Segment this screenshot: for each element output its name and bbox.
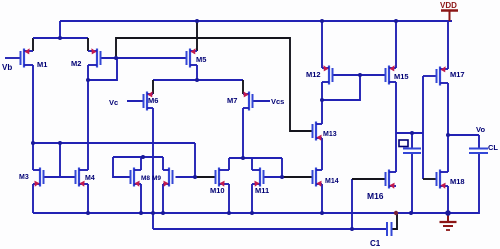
junction dot (412,133) [410,131,414,135]
wire M14 gate lead [282,176,313,178]
wire M12 gate to M15 gate [333,74,386,76]
svg-text:M4: M4 [85,175,95,182]
junction dot (411,213) [409,211,413,215]
wire M10 source [228,184,230,213]
transistor M4 [76,168,89,187]
wire M2 diode link [88,58,117,80]
wire M10 gate lead [195,176,216,178]
wire M15 source up [395,21,397,68]
junction dot (88,213) [86,211,90,215]
wire cap C top lead [411,133,413,148]
wire M1 source up [32,38,34,51]
junction dot (153,213) [151,211,155,215]
wire M11 source [251,184,253,213]
wire M13 source to M14 drain [321,138,323,170]
svg-text:M14: M14 [325,178,339,185]
junction dot (252,213) [250,211,254,215]
transistor M2 [88,48,101,67]
junction dot (60,143) [58,141,62,145]
wire drop to M14 gate [281,158,283,177]
transistor M12 [322,65,333,84]
wire M5 source up [196,21,198,51]
wire M8 gate loop [113,157,131,177]
wire y157 M8 diode [113,156,163,158]
svg-text:M3: M3 [19,174,29,181]
transistor M7 [243,91,253,110]
wire M12 diode loop [322,75,360,100]
svg-text:VDD: VDD [440,1,457,10]
junction dot (141,213) [139,211,143,215]
wire bias net to M13 gate [116,38,313,131]
wire M9 drain up [162,157,164,170]
wire M12 source up [321,21,323,68]
wire riser to top rail [59,21,61,38]
wire M8 source [140,184,142,213]
transistor M10 [216,168,230,187]
wire drop to M9-M10 gates [194,143,196,177]
wire M18 gate lead [423,178,437,180]
svg-text:M2: M2 [71,59,81,68]
svg-text:CL: CL [488,143,498,152]
capacitor CL plates [469,149,488,154]
svg-text:M1: M1 [37,60,47,69]
wire y133 node [396,132,423,134]
svg-text:M6: M6 [148,96,158,105]
junction dot (282,177) [280,175,284,179]
transistor M8 [131,168,142,187]
transistor M5 [187,48,198,67]
wire M2 drain down to M4 drain [87,65,89,170]
wire M16 gate lead [352,178,386,180]
wire M3 source down [32,184,34,213]
junction dot (197,80) [195,78,199,82]
svg-text:Vo: Vo [476,125,485,134]
transistor M17 [437,66,449,85]
transistor M9 [163,168,173,187]
wire ground rail [33,153,479,213]
wire M4 source [87,184,89,213]
wire Vo output [448,134,479,136]
wire y143 mirror bias [33,142,195,144]
svg-text:M5: M5 [196,55,206,64]
wire M5 drain down [196,65,198,80]
svg-text:M15: M15 [394,72,409,81]
junction dot (197,21) [195,19,199,23]
svg-text:M18: M18 [450,177,465,186]
svg-text:M16: M16 [367,191,384,201]
svg-text:M17: M17 [450,70,465,79]
wire M16 gate riser [351,179,353,229]
transistor M16 [386,170,397,189]
wire M17 drain to M18 drain [447,83,449,172]
svg-text:Vb: Vb [2,63,12,72]
transistor M3 [33,168,44,187]
junction dot (360,75) [358,73,362,77]
junction dot (243,158) [241,156,245,160]
wire C1 right lead to ground rail [391,213,397,229]
wire cap C bottom lead [411,153,413,213]
svg-text:M12: M12 [306,70,321,79]
wire M2 source up [87,38,89,51]
junction dot (229,213) [227,211,231,215]
wire M7 gate to Vcs [253,100,271,102]
transistor M14 [313,168,323,187]
junction dot (448,213) [445,210,451,216]
VDD supply symbol [440,1,458,21]
capacitor C plates [403,149,421,154]
svg-text:Vc: Vc [109,98,118,107]
transistor M1 [21,48,34,67]
svg-text:M9: M9 [152,175,161,182]
junction dot (163,213) [161,211,165,215]
svg-text:Vcs: Vcs [271,97,284,106]
wire VDD top rail [60,20,452,22]
wire M17 source up [447,21,449,69]
capacitor C label box [399,140,408,147]
junction dot (322,213) [320,211,324,215]
svg-text:M8: M8 [141,175,150,182]
junction dot (143,157) [141,155,145,159]
wire M10 drain up [228,158,230,170]
wire M11 drain up [251,158,253,170]
junction dot (396,21) [394,19,398,23]
wire M1-M2 source rail y38 [33,37,88,39]
ground symbol [440,214,457,230]
wire M7 drain down [242,108,244,158]
svg-text:M7: M7 [227,96,237,105]
junction dot (322,21) [320,19,324,23]
wire CL top lead [478,135,480,148]
wire M8 drain up [140,157,142,170]
junction dot (195,177) [193,175,197,179]
wire Vc to M6 gate [127,100,144,102]
transistor M15 [386,65,397,84]
wire M7 drain up [242,80,244,94]
wire M6 source down long [152,108,154,229]
junction dot (322,100) [320,98,324,102]
svg-text:C1: C1 [370,239,381,248]
wire riser M3-M4 gates [59,143,61,177]
transistor M6 [144,91,154,110]
transistor M18 [437,170,449,189]
junction dot (88,80) [86,78,90,82]
wire M15 drain down to M16 drain [395,82,397,172]
wire riser M17-M18 gates [422,76,424,179]
wire M11 gate lead [264,176,283,178]
wire M17 gate lead [423,75,437,77]
wire bottom y229 [153,228,387,230]
wire M9 gate lead [176,176,196,178]
wire M18 source [447,186,449,213]
junction dot (396,213) [394,211,398,215]
capacitor C1 plates [387,222,392,236]
transistor M13 [313,122,323,141]
svg-text:M11: M11 [255,186,269,195]
svg-text:M13: M13 [323,131,337,138]
wire M1 drain down to M3 [32,65,34,170]
wire M14 source [321,184,323,213]
wire M3-M4 gate link [44,176,76,178]
junction dot (448,135) [446,133,450,137]
wire M9 source [162,184,164,213]
wire y158 M10-M11 drains [229,157,282,159]
wire y80 M6-M7 drains [153,79,243,81]
junction dot (60,38) [58,36,62,40]
junction dot (33,143) [31,141,35,145]
wire M2 gate to M5 gate [101,57,187,59]
wire M6 drain up [152,80,154,94]
svg-text:M10: M10 [210,186,225,195]
wire M12 drain down to M13 [321,82,323,124]
transistor M11 [252,168,264,187]
wire Vb to M1 gate [5,57,21,59]
junction dot (116,58) [114,56,118,60]
junction dot (352,229) [350,227,354,231]
